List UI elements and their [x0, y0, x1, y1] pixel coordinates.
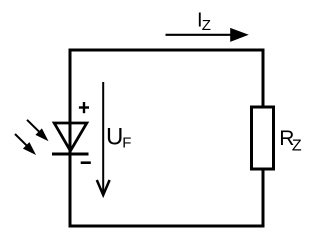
wire bottom: [69, 225, 265, 228]
svg-text:Z: Z: [292, 138, 302, 155]
wire right: [262, 49, 265, 228]
voltage arrow UF: [97, 82, 110, 195]
photodiode D1 triangle: [54, 123, 87, 151]
wire top: [69, 49, 265, 52]
svg-text:F: F: [122, 135, 131, 152]
resistor RZ: [252, 107, 274, 169]
plus sign: [79, 102, 89, 113]
wire left: [69, 49, 72, 228]
svg-text:Z: Z: [202, 17, 211, 34]
light arrow lower: [15, 134, 36, 155]
light arrow upper: [27, 120, 49, 142]
current arrow IZ: [166, 28, 249, 42]
photodiode D1 cathode bar: [52, 153, 89, 156]
minus sign: [81, 161, 91, 164]
svg-text:U: U: [106, 124, 123, 151]
